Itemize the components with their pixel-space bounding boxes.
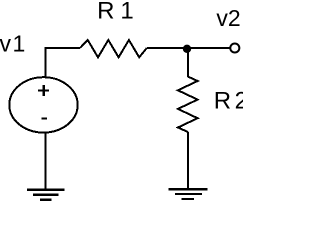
svg-text:2: 2 <box>235 88 243 115</box>
wire R2 to ground <box>187 132 189 189</box>
svg-text:v2: v2 <box>216 5 240 31</box>
svg-text:R: R <box>97 0 114 25</box>
label R2 <box>214 88 248 115</box>
svg-text:v: v <box>0 31 12 57</box>
ground (right) <box>169 189 208 199</box>
minus sign <box>41 118 47 120</box>
plus sign <box>38 85 49 96</box>
label v1 <box>0 31 25 57</box>
node v2 open terminal <box>230 43 239 52</box>
wire junction to R2 <box>187 48 189 77</box>
label v2 <box>216 5 240 31</box>
svg-text:1: 1 <box>13 31 26 57</box>
wire R1 to node v2 <box>147 47 230 49</box>
junction dot <box>183 45 191 53</box>
svg-text:1: 1 <box>120 0 133 25</box>
label R1 <box>97 0 134 25</box>
ground (left) <box>27 190 65 200</box>
resistor R1 <box>80 40 147 57</box>
wire from v1 top to R1 <box>46 48 81 77</box>
resistor R2 <box>178 77 198 132</box>
svg-text:R: R <box>214 88 231 115</box>
wire v1 bottom to ground <box>45 134 47 190</box>
voltage source V1 <box>9 77 77 132</box>
